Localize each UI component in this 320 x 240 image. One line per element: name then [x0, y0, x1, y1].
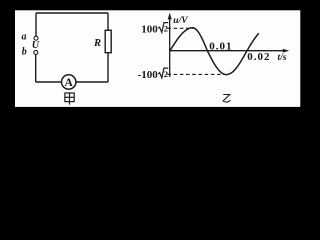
- svg-text:0.01: 0.01: [209, 41, 232, 53]
- svg-text:A: A: [65, 77, 74, 89]
- svg-text:-100: -100: [138, 69, 159, 81]
- svg-text:R: R: [93, 38, 101, 49]
- svg-text:u/V: u/V: [173, 16, 188, 26]
- svg-text:t/s: t/s: [278, 53, 287, 63]
- svg-text:2: 2: [164, 23, 168, 33]
- svg-text:2: 2: [164, 69, 168, 79]
- svg-text:b: b: [22, 47, 27, 58]
- svg-text:a: a: [22, 32, 27, 43]
- svg-text:U: U: [32, 40, 40, 51]
- svg-text:100: 100: [141, 23, 158, 35]
- svg-text:0.02: 0.02: [247, 51, 270, 63]
